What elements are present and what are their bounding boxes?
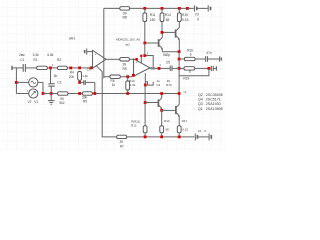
- input terminal: [11, 66, 13, 70]
- svg-text:C5: C5: [166, 60, 170, 64]
- resistor R2: [47, 53, 67, 69]
- node Q3 emitter: [160, 109, 163, 112]
- resistor R6: [110, 75, 120, 87]
- node R10 rail: [126, 92, 129, 95]
- transistor Q1 driver: [145, 32, 163, 51]
- svg-text:20k: 20k: [69, 75, 75, 79]
- wire R9 to dA2: [129, 58, 134, 60]
- svg-text:V1: V1: [34, 100, 38, 104]
- node V2 tap: [15, 81, 18, 84]
- svg-text:R7: R7: [120, 144, 124, 148]
- resistor R3: [58, 92, 68, 105]
- resistor R10: [126, 77, 136, 94]
- wire row68: [179, 67, 184, 69]
- svg-text:R15: R15: [182, 13, 188, 17]
- resistor R7: [117, 135, 127, 148]
- wire R2 to op-amp: [67, 67, 91, 69]
- svg-text:MDK025_15V_A0: MDK025_15V_A0: [116, 37, 140, 41]
- node 1: [49, 67, 52, 70]
- label op-amp type: [116, 37, 140, 46]
- wire op2 out jog: [145, 56, 153, 69]
- svg-text:R9: R9: [122, 67, 126, 71]
- label transistor list: [198, 93, 224, 111]
- node R14 bottom: [161, 31, 164, 34]
- wire output dA2: [150, 67, 170, 69]
- svg-text:560p: 560p: [163, 53, 170, 57]
- wire dA1 inverting input: [91, 65, 93, 68]
- resistor R1: [33, 53, 48, 69]
- svg-text:R2: R2: [57, 58, 61, 62]
- svg-text:39: 39: [120, 140, 124, 144]
- resistor R14: [160, 8, 171, 32]
- wire C1 to R1: [25, 67, 36, 69]
- node dA2 plus: [135, 58, 137, 60]
- svg-text:6.8k: 6.8k: [47, 53, 53, 57]
- svg-text:8: 8: [189, 69, 191, 73]
- node output: [158, 67, 161, 70]
- svg-text:R14: R14: [165, 13, 171, 17]
- svg-text:Q1: Q1: [198, 107, 203, 111]
- capacitor C2: [48, 68, 61, 94]
- svg-text:C2: C2: [57, 81, 61, 85]
- node dA1 input: [90, 67, 93, 70]
- node zobel: [208, 67, 211, 70]
- node Q1 base: [143, 42, 146, 45]
- transistor Q2 output top: [176, 22, 180, 52]
- resistor R4: [69, 71, 82, 83]
- node Q3 collector rail: [160, 92, 163, 95]
- svg-text:·: ·: [39, 78, 40, 81]
- svg-text:47n: 47n: [206, 51, 212, 55]
- node R4 top: [78, 67, 81, 70]
- resistor R16: [184, 48, 195, 60]
- capacitor C3: [80, 67, 95, 93]
- ground under C2: [48, 94, 55, 105]
- svg-text:0.15: 0.15: [182, 18, 189, 22]
- svg-text:C3: C3: [87, 67, 91, 71]
- node jog: [143, 54, 146, 57]
- wire input: [12, 67, 23, 69]
- svg-text:Q2: Q2: [198, 93, 203, 97]
- svg-text:3.3k: 3.3k: [130, 83, 136, 87]
- wire row59: [179, 58, 184, 60]
- svg-text:2SA1380E: 2SA1380E: [206, 107, 224, 111]
- svg-text:1.8n: 1.8n: [82, 74, 88, 78]
- wire Q1 collector row: [162, 31, 175, 33]
- svg-text:v1: v1: [183, 90, 186, 94]
- node junction R11 top: [143, 7, 146, 10]
- node R17b bottom: [178, 136, 181, 139]
- svg-text:R17: R17: [182, 119, 188, 123]
- wire dA1 V- lead: [97, 66, 117, 137]
- svg-text:39: 39: [122, 62, 126, 66]
- svg-text:Q4: Q4: [198, 98, 203, 102]
- wire Q1 emitter row: [162, 51, 179, 53]
- svg-text:C4: C4: [156, 83, 160, 87]
- wire V- loop: [145, 82, 153, 85]
- wire bottom rail: [43, 93, 179, 95]
- svg-text:R13: R13: [166, 83, 172, 87]
- wire right vertical rail: [178, 52, 180, 94]
- label V2 V1: [28, 100, 39, 104]
- node R2 right: [69, 67, 72, 70]
- node sources: [42, 92, 45, 95]
- svg-text:R5: R5: [83, 100, 87, 104]
- wire col145 lower: [144, 85, 146, 126]
- svg-text:8n: 8n: [54, 74, 58, 78]
- wire dA2 V+ stub: [140, 56, 142, 63]
- svg-text:C1: C1: [20, 58, 24, 62]
- svg-text:R8: R8: [122, 16, 127, 20]
- svg-text:R1: R1: [33, 58, 37, 62]
- wire zobel return: [179, 68, 209, 75]
- wire Q4 base row: [162, 109, 176, 111]
- source V2: [16, 78, 43, 94]
- node R4 rail: [78, 92, 81, 95]
- wire R6 to dA2: [120, 75, 133, 77]
- node dA2 V+: [140, 55, 142, 57]
- resistor R13b: [160, 110, 170, 136]
- node C3 rail: [93, 92, 96, 95]
- svg-text:dA1: dA1: [69, 37, 75, 41]
- svg-text:V3: V3: [195, 12, 199, 16]
- svg-text:dx2: dx2: [125, 43, 130, 47]
- wire top supply rail: [104, 7, 190, 9]
- node dA2 minus: [132, 74, 135, 77]
- svg-text:2SC5171: 2SC5171: [206, 98, 221, 102]
- resistor R15: [177, 8, 188, 21]
- node emitter junction: [178, 50, 181, 53]
- svg-text:R11: R11: [150, 13, 156, 17]
- capacitor C1: [19, 53, 25, 72]
- svg-text:+: +: [95, 53, 97, 57]
- resistor R5: [82, 92, 92, 104]
- svg-text:R12: R12: [131, 123, 137, 127]
- svg-text:1k: 1k: [112, 83, 116, 87]
- node R12 bottom: [144, 136, 147, 139]
- svg-text:V2: V2: [28, 100, 32, 104]
- svg-text:6: 6: [190, 53, 192, 57]
- battery V4: [195, 129, 211, 141]
- node R4 bottom: [78, 81, 81, 84]
- node dA2 V-: [144, 84, 147, 87]
- svg-text:3.3k: 3.3k: [33, 53, 39, 57]
- svg-text:V4: V4: [198, 129, 202, 133]
- svg-text:+: +: [136, 61, 138, 65]
- resistor R8: [120, 7, 130, 20]
- label out: [151, 67, 156, 70]
- wire dA2 V- stub: [144, 73, 146, 85]
- capacitor C6 47n: [195, 51, 221, 62]
- wire dA1 long supply drop: [103, 8, 105, 78]
- svg-text:2SA1930: 2SA1930: [206, 102, 221, 106]
- ground at dA1 + input: [85, 49, 93, 55]
- svg-text:0.15: 0.15: [182, 128, 188, 132]
- wire R11 lead lower: [144, 43, 146, 56]
- wire output dA1: [106, 58, 120, 60]
- node Q4 collector rail: [178, 92, 181, 95]
- svg-text:R19: R19: [183, 77, 189, 81]
- svg-text:R13: R13: [164, 119, 170, 123]
- node row 59: [178, 58, 181, 61]
- source V1: [16, 89, 37, 98]
- transistor Q4 output bottom: [176, 94, 180, 126]
- wire R6 input: [104, 76, 110, 78]
- wire left drop: [15, 68, 17, 94]
- op-amp dA1: [93, 50, 106, 68]
- svg-text:2SC3500E: 2SC3500E: [206, 93, 224, 97]
- svg-text:Q3: Q3: [198, 102, 203, 106]
- svg-text:9: 9: [197, 18, 199, 22]
- svg-text:68: 68: [166, 18, 170, 22]
- capacitor C7 47n: [195, 66, 217, 71]
- node row 68.4: [178, 67, 181, 70]
- label C4 1u: [156, 79, 160, 87]
- svg-text:2мк: 2мк: [19, 53, 25, 57]
- svg-text:5k2: 5k2: [59, 101, 64, 105]
- battery V3: [187, 5, 210, 21]
- wire R1 to node1: [47, 67, 57, 69]
- node junction battery: [186, 7, 189, 10]
- resistor R9: [120, 58, 130, 71]
- node R13b bottom: [160, 136, 163, 139]
- svg-text:180: 180: [150, 18, 156, 22]
- node junction R15 top: [178, 7, 181, 10]
- resistor R19: [183, 67, 194, 81]
- transistor Q3 driver bottom: [145, 94, 162, 111]
- capacitor C5: [163, 53, 179, 71]
- node C2 ground: [50, 92, 53, 95]
- svg-text:68: 68: [166, 128, 170, 132]
- op-amp dA2: [134, 59, 150, 76]
- resistor R11: [143, 8, 156, 43]
- resistor R12: [131, 119, 147, 136]
- node junction R14 top: [161, 7, 164, 10]
- resistor R17b: [177, 119, 188, 137]
- wire bottom supply rail: [127, 136, 195, 138]
- node Q3 base: [144, 101, 147, 104]
- node R6 R10: [126, 75, 129, 78]
- label R13 39: [166, 79, 172, 87]
